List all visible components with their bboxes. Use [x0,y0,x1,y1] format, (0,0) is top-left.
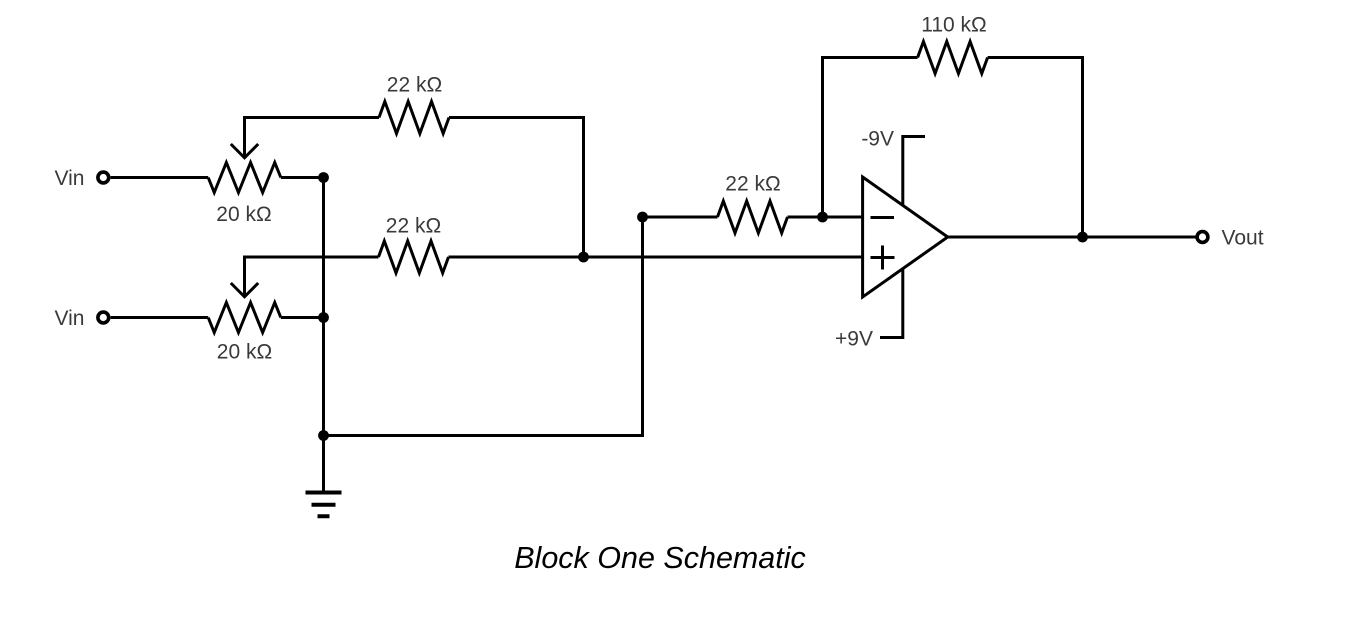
wire: node C down to ground [322,436,325,493]
op-amp U1 positive supply pin wire (+9V) [880,269,903,338]
wire: bottom rail from node C up to node E, into resistor R5 [324,217,718,436]
junction node D: top rail / mid rail [578,252,589,263]
input terminal circle Vin2 [98,312,109,323]
wire: potentiometer R2 to node B [281,316,324,319]
wire: left bus from node A down through node B to node C [322,178,325,436]
wire: resistor R6 right and down to output node G [988,58,1083,238]
potentiometer R1 body (20 kΩ) [208,163,281,193]
svg-text:22 kΩ: 22 kΩ [386,215,441,238]
junction node A: pot R1 / left bus [318,172,329,183]
junction node F: inverting input / feedback [817,212,828,223]
op-amp U1 non-inverting input plus sign [871,246,895,270]
resistor R3 body (22 kΩ, top) [379,102,449,134]
input terminal circle Vin1 [98,172,109,183]
potentiometer R2 body (20 kΩ) [208,303,281,333]
junction node G: output / feedback [1077,232,1088,243]
wire: Vin2 terminal to potentiometer R2 [111,316,209,319]
op-amp U1 inverting input minus sign [871,216,895,219]
svg-text:Block One Schematic: Block One Schematic [514,541,806,575]
resistor R4 body (22 kΩ, middle) [379,241,449,273]
svg-text:Vin: Vin [55,167,85,190]
arrowhead of potentiometer R2 wiper [231,283,258,297]
output terminal circle Vout [1197,232,1208,243]
svg-text:110 kΩ: 110 kΩ [921,14,987,37]
svg-text:-9V: -9V [861,128,894,151]
svg-text:20 kΩ: 20 kΩ [216,203,271,226]
wire: resistor R5 through node F to op-amp inverting input [788,216,863,219]
arrowhead of potentiometer R1 wiper [231,144,258,158]
resistor R6 body (110 kΩ feedback) [918,42,988,74]
op-amp U1 negative supply pin wire (-9V) [903,137,925,206]
wire: op-amp output to Vout terminal [948,236,1197,239]
svg-text:22 kΩ: 22 kΩ [387,74,442,97]
svg-text:20 kΩ: 20 kΩ [217,341,272,364]
svg-text:+9V: +9V [835,328,873,351]
junction node B: pot R2 / left bus [318,312,329,323]
ground symbol [306,493,342,517]
junction node C: left bus / bottom rail / ground [318,430,329,441]
wire: resistor R4 through node D to op-amp non-inverting input [449,256,863,259]
wire: potentiometer R1 to node A [281,176,324,179]
wire: feedback from node F up and right to resistor R6 [823,58,918,218]
junction node E: bottom branch / inverting row [637,212,648,223]
op-amp U1 body [863,177,948,297]
svg-text:Vout: Vout [1222,227,1264,250]
wire: R2 wiper arrow shaft up to mid rail, right to resistor R4 [245,257,379,297]
svg-text:22 kΩ: 22 kΩ [725,173,780,196]
svg-text:Vin: Vin [55,307,85,330]
wire: Vin1 terminal to potentiometer R1 [111,176,209,179]
resistor R5 body (22 kΩ, inverting input) [718,201,788,233]
wire: R1 wiper arrow shaft up to top rail, right to resistor R3 [245,118,380,158]
wire: resistor R3 right over to mid-rail node D [449,118,584,258]
